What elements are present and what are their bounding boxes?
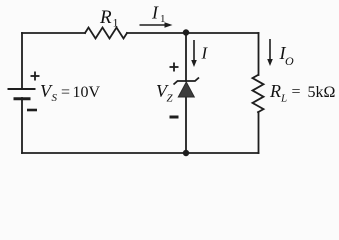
wire right lower segment bbox=[258, 112, 260, 153]
zener plus sign bbox=[170, 63, 179, 72]
svg-text:5kΩ: 5kΩ bbox=[308, 84, 336, 101]
label IO bbox=[279, 43, 295, 68]
battery minus sign bbox=[27, 109, 37, 112]
svg-text:1: 1 bbox=[160, 13, 166, 25]
zener diode VZ anode triangle bbox=[178, 82, 194, 97]
label R1 bbox=[99, 7, 119, 30]
label VS = 10V bbox=[40, 81, 101, 104]
battery V_S long positive plate bbox=[9, 88, 35, 90]
svg-text:R: R bbox=[99, 7, 112, 28]
zener diode VZ cathode bar bbox=[174, 78, 200, 85]
svg-text:=: = bbox=[292, 84, 301, 101]
svg-text:S: S bbox=[52, 92, 58, 104]
wire bottom segment bbox=[22, 152, 259, 154]
battery V_S short negative plate bbox=[15, 97, 29, 100]
node junction bottom bbox=[183, 150, 189, 156]
resistor RL bbox=[253, 75, 264, 112]
wire top-right segment bbox=[186, 32, 259, 34]
wire middle branch upper segment bbox=[185, 33, 187, 81]
label VZ bbox=[156, 81, 174, 105]
svg-text:L: L bbox=[280, 93, 287, 105]
svg-text:R: R bbox=[269, 81, 281, 101]
resistor R1 bbox=[85, 28, 127, 39]
wire top-left segment bbox=[22, 32, 85, 34]
wire left lower segment bbox=[21, 98, 23, 153]
wire left upper segment bbox=[21, 33, 23, 89]
zener minus sign bbox=[170, 116, 179, 119]
svg-text:1: 1 bbox=[113, 16, 119, 30]
current arrow I1 bbox=[140, 22, 173, 27]
battery plus sign bbox=[31, 72, 40, 81]
wire top-middle segment bbox=[127, 32, 186, 34]
svg-text:=: = bbox=[61, 84, 70, 101]
label RL = 5kOhm bbox=[269, 81, 336, 105]
svg-text:I: I bbox=[201, 44, 209, 63]
wire right upper segment bbox=[258, 33, 260, 75]
current arrow IO bbox=[267, 39, 273, 66]
node junction top bbox=[183, 29, 189, 35]
svg-text:Z: Z bbox=[167, 93, 174, 105]
svg-text:O: O bbox=[285, 54, 294, 68]
svg-text:10V: 10V bbox=[73, 84, 101, 101]
label I1 bbox=[151, 3, 166, 26]
current arrow I bbox=[191, 40, 197, 67]
wire middle branch lower segment bbox=[185, 97, 187, 153]
svg-text:I: I bbox=[151, 3, 159, 23]
